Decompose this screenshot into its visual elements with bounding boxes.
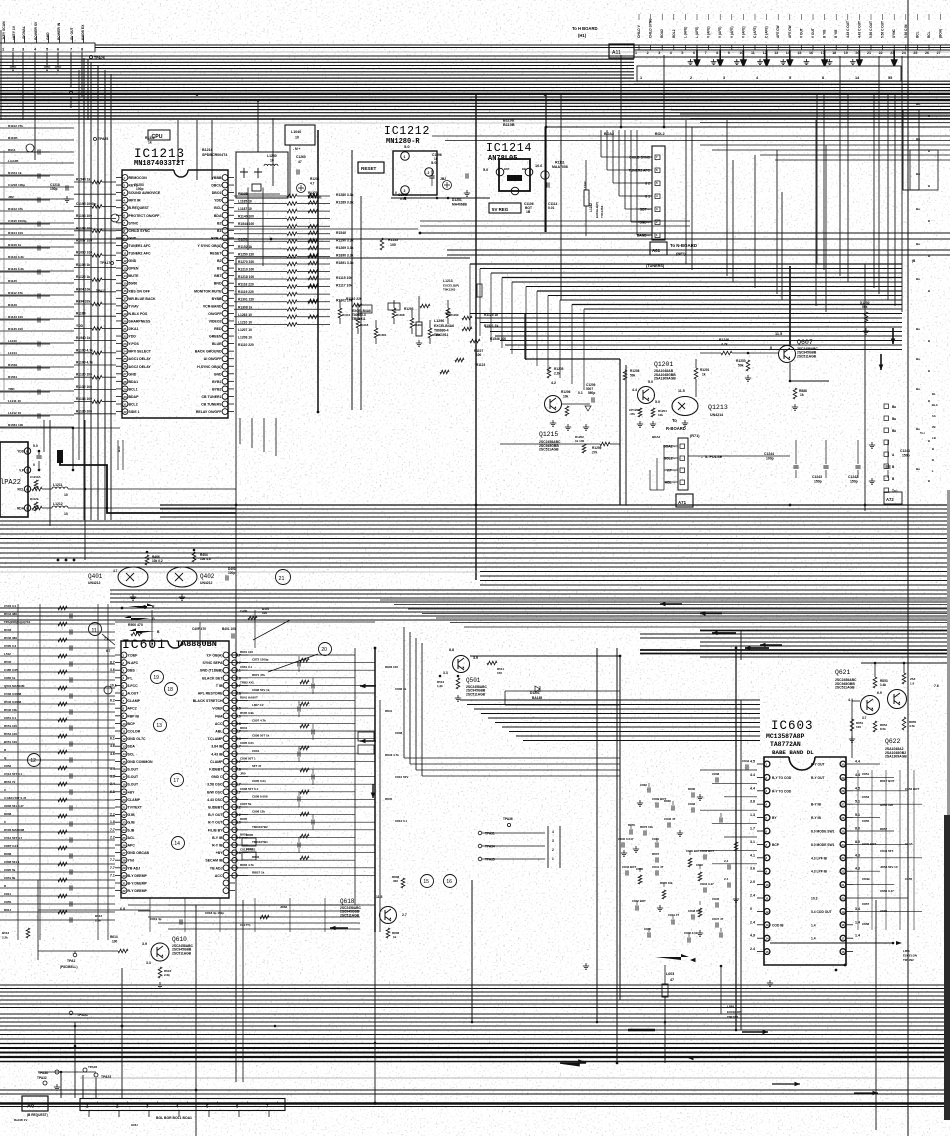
svg-text:B-Y IB: B-Y IB (212, 836, 223, 840)
svg-text:R1100 4.7k: R1100 4.7k (76, 348, 93, 352)
svg-text:TUNER2 AFC: TUNER2 AFC (129, 252, 152, 256)
svg-text:14: 14 (122, 752, 126, 756)
svg-text:R1106 1k: R1106 1k (8, 243, 22, 247)
svg-text:B.REQUEST: B.REQUEST (129, 206, 150, 210)
svg-text:R1133 100: R1133 100 (8, 315, 23, 319)
svg-text:3.6: 3.6 (110, 668, 115, 672)
svg-text:C838: C838 (712, 772, 720, 776)
svg-text:XBS ON OFF: XBS ON OFF (129, 289, 151, 293)
svg-text:R1544 100: R1544 100 (238, 222, 254, 226)
svg-text:1: 1 (635, 51, 637, 55)
svg-text:L1185 10: L1185 10 (238, 200, 252, 204)
svg-text:B-Y DEEMP: B-Y DEEMP (128, 882, 148, 886)
svg-text:D503 MA503M: D503 MA503M (4, 828, 25, 832)
svg-text:R1117 10k: R1117 10k (336, 284, 352, 288)
svg-text:lPA22: lPA22 (0, 479, 21, 487)
svg-text:26: 26 (925, 51, 929, 55)
svg-text:ACC: ACC (215, 722, 223, 726)
svg-text:V OUT: V OUT (811, 28, 815, 38)
svg-text:100: 100 (262, 611, 267, 615)
svg-text:D808: D808 (4, 812, 12, 816)
svg-text:C851: C851 (862, 772, 870, 776)
svg-text:B110B: B110B (8, 136, 18, 140)
svg-text:YB ADJ: YB ADJ (210, 866, 223, 870)
svg-text:8.5k: 8.5k (880, 727, 886, 731)
svg-text:C836 BOT: C836 BOT (686, 849, 700, 853)
svg-text:R1308: R1308 (396, 313, 405, 317)
svg-text:C847 4T: C847 4T (712, 917, 724, 921)
svg-text:BOA2: BOA2 (604, 132, 614, 136)
svg-text:6.2: 6.2 (110, 699, 115, 703)
svg-text:3.4 COD OUT: 3.4 COD OUT (811, 910, 832, 914)
svg-text:C1244: C1244 (764, 452, 774, 456)
svg-text:2.4: 2.4 (724, 877, 729, 881)
svg-text:A71: A71 (678, 500, 687, 505)
svg-text:C818 4p 100p: C818 4p 100p (205, 911, 224, 915)
svg-text:R81T BOT: R81T BOT (880, 779, 895, 783)
svg-text:ACL: ACL (128, 836, 136, 840)
svg-text:C505 0.3: C505 0.3 (4, 644, 17, 648)
svg-text:29: 29 (122, 866, 126, 870)
svg-text:GND: GND (129, 236, 137, 240)
svg-text:B: B (928, 254, 930, 258)
svg-text:C40F 470: C40F 470 (192, 627, 206, 631)
svg-text:L1207 10: L1207 10 (238, 328, 252, 332)
svg-text:R1104 100: R1104 100 (8, 231, 23, 235)
svg-text:R801 100: R801 100 (240, 650, 253, 654)
svg-text:SIDE 1: SIDE 1 (129, 410, 140, 414)
svg-text:R1125: R1125 (8, 279, 17, 283)
svg-text:R1155: R1155 (388, 238, 398, 242)
svg-text:R1129 3.3k: R1129 3.3k (8, 255, 24, 259)
svg-text:11: 11 (765, 896, 768, 900)
svg-text:Yhd: Yhd (128, 859, 135, 863)
svg-text:5.56 C IN: 5.56 C IN (904, 24, 908, 38)
svg-text:C850 0.47: C850 0.47 (880, 889, 894, 893)
svg-text:B-Y DEEMP: B-Y DEEMP (128, 874, 148, 878)
svg-text:UN4214: UN4214 (710, 413, 723, 417)
svg-text:L (AFE): L (AFE) (695, 27, 699, 38)
svg-text:10: 10 (765, 883, 769, 887)
svg-text:R-Y IB: R-Y IB (212, 844, 223, 848)
svg-text:C40F: C40F (240, 609, 248, 613)
svg-text:150p: 150p (902, 454, 910, 458)
svg-text:3: 3 (658, 51, 660, 55)
svg-text:1.9: 1.9 (910, 682, 915, 686)
svg-text:F.IDBBT: F.IDBBT (209, 768, 223, 772)
svg-text:R1308 1k: R1308 1k (238, 305, 252, 309)
svg-text:FBP IB: FBP IB (128, 714, 140, 718)
svg-text:2.4: 2.4 (724, 859, 729, 863)
svg-text:R1115 10k: R1115 10k (336, 276, 352, 280)
svg-text:DBO1: DBO1 (212, 191, 222, 195)
svg-text:R554 100: R554 100 (4, 732, 17, 736)
svg-text:B512: B512 (95, 914, 103, 918)
svg-text:BCL: BCL (214, 206, 222, 210)
svg-text:D841: D841 (240, 726, 248, 730)
svg-text:6: 6 (693, 51, 695, 55)
svg-text:17: 17 (173, 778, 179, 784)
svg-text:8.0 MODE SW1: 8.0 MODE SW1 (811, 843, 835, 847)
svg-text:R1140 100: R1140 100 (238, 215, 254, 219)
svg-text:A72: A72 (886, 497, 894, 502)
svg-text:0: 0 (33, 463, 35, 467)
svg-text:R1521 1k: R1521 1k (484, 324, 498, 328)
svg-text:V (AFE): V (AFE) (730, 26, 734, 38)
svg-text:R843 4.7k: R843 4.7k (385, 753, 399, 757)
svg-text:1.8: 1.8 (110, 820, 115, 824)
svg-text:GND: GND (129, 372, 137, 376)
svg-text:R1546 100: R1546 100 (490, 337, 506, 341)
svg-text:6 2: 6 2 (645, 182, 650, 186)
svg-text:BA185: BA185 (532, 696, 542, 700)
svg-text:19: 19 (841, 910, 845, 914)
svg-text:C808 50T 0.1: C808 50T 0.1 (240, 787, 259, 791)
svg-text:L603: L603 (666, 972, 674, 976)
svg-text:CLAMP: CLAMP (210, 760, 223, 764)
svg-text:Bu: Bu (916, 102, 920, 106)
svg-text:GND: GND (129, 259, 137, 263)
svg-text:PROTECT ON/OFF: PROTECT ON/OFF (129, 214, 161, 218)
svg-text:R-Y DEEMP: R-Y DEEMP (128, 889, 148, 893)
svg-text:14: 14 (765, 937, 769, 941)
svg-text:Bu: Bu (892, 429, 896, 433)
svg-text:20: 20 (122, 798, 126, 802)
svg-text:23: 23 (123, 342, 127, 346)
svg-text:Bu: Bu (916, 467, 920, 471)
svg-text:3.3: 3.3 (146, 961, 151, 965)
svg-text:L1187 10: L1187 10 (238, 207, 252, 211)
svg-text:IC1213: IC1213 (134, 147, 185, 161)
svg-text:OPEN: OPEN (129, 267, 139, 271)
svg-text:R1102 47k: R1102 47k (8, 124, 23, 128)
svg-text:R551 100: R551 100 (4, 724, 17, 728)
svg-text:R1250: R1250 (736, 359, 746, 363)
svg-text:2S4: 2S4 (910, 677, 916, 681)
svg-text:C512 50T 0.1: C512 50T 0.1 (4, 772, 23, 776)
svg-text:10: 10 (295, 136, 299, 140)
svg-text:R814: R814 (4, 908, 12, 912)
svg-text:GND (T1DBB): GND (T1DBB) (200, 669, 223, 673)
svg-text:R-Y OUT: R-Y OUT (811, 776, 825, 780)
svg-text:17: 17 (122, 775, 126, 779)
svg-text:D808: D808 (4, 852, 12, 856)
svg-text:4.3: 4.3 (855, 867, 860, 871)
svg-text:BLUE: BLUE (212, 342, 222, 346)
svg-text:C840 BOT: C840 BOT (862, 842, 877, 846)
svg-text:R604 10k: R604 10k (76, 287, 90, 291)
svg-text:S.OUT: S.OUT (128, 775, 140, 779)
svg-text:S.OUT: S.OUT (128, 768, 140, 772)
svg-text:6.9: 6.9 (877, 691, 882, 695)
svg-text:4.43 IB: 4.43 IB (211, 752, 223, 756)
svg-text:R1118: R1118 (360, 323, 369, 327)
svg-text:8 1: 8 1 (645, 195, 650, 199)
svg-text:R1270 220: R1270 220 (238, 260, 254, 264)
svg-text:0: 0 (750, 907, 752, 911)
svg-text:3.3: 3.3 (110, 775, 115, 779)
svg-text:TRB2 XXL: TRB2 XXL (240, 680, 255, 684)
svg-text:SBT→: SBT→ (640, 208, 650, 212)
svg-text:8: 8 (822, 76, 824, 80)
svg-text:BOT: BOT (504, 167, 510, 171)
svg-text:27: 27 (122, 851, 126, 855)
svg-text:SHARPNESS: SHARPNESS (129, 319, 151, 323)
svg-text:To N-BOARD: To N-BOARD (670, 243, 697, 248)
svg-text:BLACK STRETCH: BLACK STRETCH (193, 699, 223, 703)
svg-text:22: 22 (122, 813, 126, 817)
svg-text:C843 BOT: C843 BOT (700, 849, 715, 853)
svg-text:R1111: R1111 (555, 161, 565, 165)
svg-text:B: B (932, 458, 934, 462)
svg-text:3.1: 3.1 (750, 840, 755, 844)
svg-text:4.4: 4.4 (632, 388, 637, 392)
svg-text:MPX IR: MPX IR (129, 199, 142, 203)
svg-text:R1581 100: R1581 100 (8, 423, 23, 427)
svg-text:L1244: L1244 (8, 351, 17, 355)
svg-text:EXCELON: EXCELON (903, 954, 917, 958)
svg-text:4.4: 4.4 (750, 786, 755, 790)
svg-text:B110B: B110B (503, 123, 515, 127)
svg-text:3.58 OSC: 3.58 OSC (207, 783, 223, 787)
svg-text:2SC511AGB: 2SC511AGB (797, 354, 817, 358)
svg-text:GND C: GND C (211, 775, 223, 779)
svg-text:3.FCC: 3.FCC (128, 684, 139, 688)
svg-text:hA: hA (932, 414, 936, 418)
svg-text:GND COMMON: GND COMMON (128, 760, 154, 764)
svg-text:R1289 3.3k: R1289 3.3k (336, 201, 354, 205)
svg-text:C1242: C1242 (848, 475, 858, 479)
svg-text:4: 4 (552, 830, 554, 834)
svg-text:Q1215: Q1215 (539, 431, 558, 438)
svg-text:BYB1: BYB1 (212, 380, 221, 384)
svg-text:8.8: 8.8 (449, 648, 454, 652)
svg-text:G: G (152, 617, 155, 621)
svg-text:13: 13 (765, 923, 769, 927)
svg-text:R554 7k: R554 7k (4, 780, 16, 784)
svg-text:T80880-4: T80880-4 (434, 329, 449, 333)
svg-text:TPA33: TPA33 (101, 1075, 111, 1079)
svg-text:BOL2→: BOL2→ (664, 457, 676, 461)
svg-text:R1208: R1208 (630, 369, 640, 373)
svg-text:ABL →: ABL → (665, 481, 676, 485)
svg-text:3.6: 3.6 (750, 867, 755, 871)
svg-text:C1213A: C1213A (30, 475, 42, 479)
svg-text:C861 0.1: C861 0.1 (240, 665, 253, 669)
svg-text:EXCELB4A6: EXCELB4A6 (434, 324, 454, 328)
svg-text:F'L: F'L (128, 676, 134, 680)
svg-text:7.7: 7.7 (110, 858, 115, 862)
svg-text:N.BLX POS: N.BLX POS (129, 312, 149, 316)
svg-text:R1102 47k: R1102 47k (8, 207, 23, 211)
svg-text:27: 27 (937, 51, 941, 55)
svg-text:R1312: R1312 (145, 136, 155, 140)
svg-text:GND: GND (214, 372, 222, 376)
svg-text:10: 10 (270, 159, 274, 163)
svg-text:1k 100: 1k 100 (575, 439, 585, 443)
svg-text:C1218 100p: C1218 100p (8, 183, 25, 187)
svg-text:2.4: 2.4 (750, 947, 755, 951)
svg-text:+KEY 1V: +KEY 1V (12, 25, 16, 40)
svg-text:20: 20 (321, 647, 327, 653)
svg-text:L1208 10: L1208 10 (238, 335, 252, 339)
svg-text:4.43 C OUT: 4.43 C OUT (857, 21, 861, 38)
svg-text:D805: D805 (240, 817, 248, 821)
svg-text:B-Y OUT: B-Y OUT (208, 813, 223, 817)
svg-text:R1940 1k: R1940 1k (76, 336, 90, 340)
svg-text:L1040: L1040 (291, 130, 301, 134)
svg-text:BND: BND (214, 282, 222, 286)
svg-text:TA8772AN: TA8772AN (770, 741, 801, 748)
svg-text:2.4: 2.4 (750, 894, 755, 898)
svg-text:R1246: R1246 (719, 338, 729, 342)
svg-text:CB TUNER1: CB TUNER1 (201, 395, 221, 399)
svg-text:50k: 50k (738, 364, 744, 368)
svg-text:7: 7 (705, 51, 707, 55)
svg-text:KNOB EX: KNOB EX (81, 24, 85, 40)
svg-text:10.3: 10.3 (811, 897, 818, 901)
svg-text:2: 2 (647, 51, 649, 55)
svg-text:2.2k: 2.2k (95, 919, 101, 923)
svg-text:R914: R914 (8, 148, 16, 152)
svg-text:27: 27 (123, 372, 127, 376)
svg-text:25: 25 (913, 51, 917, 55)
svg-text:BACK GROUND: BACK GROUND (195, 350, 222, 354)
svg-text:DBCU: DBCU (211, 184, 222, 188)
svg-text:L1211: L1211 (53, 483, 63, 487)
svg-text:1.2k: 1.2k (437, 684, 443, 688)
svg-text:24: 24 (902, 51, 906, 55)
svg-text:B801: B801 (246, 847, 254, 851)
svg-text:2.2k: 2.2k (164, 973, 170, 977)
svg-text:-47k: -47k (629, 412, 635, 416)
svg-text:ABL: ABL (215, 730, 223, 734)
svg-text:B1: B1 (217, 267, 222, 271)
svg-text:R1112 47k: R1112 47k (8, 291, 23, 295)
svg-text:11.5: 11.5 (678, 389, 685, 393)
svg-text:D857: D857 (880, 827, 888, 831)
svg-text:RED: RED (214, 327, 222, 331)
svg-text:G.IB: G.IB (128, 813, 136, 817)
svg-text:5.0: 5.0 (404, 144, 410, 149)
svg-text:TPA32: TPA32 (37, 1076, 47, 1080)
svg-text:5.0: 5.0 (655, 400, 660, 404)
svg-text:C808: C808 (395, 731, 403, 735)
svg-text:L1212: L1212 (53, 502, 63, 506)
svg-text:A61: A61 (652, 248, 661, 253)
svg-text:R1301 220: R1301 220 (238, 298, 254, 302)
svg-text:D1251: D1251 (452, 198, 462, 202)
svg-text:R1561: R1561 (8, 375, 17, 379)
svg-text:3.4: 3.4 (110, 767, 115, 771)
svg-text:C865 1k: C865 1k (4, 676, 16, 680)
svg-text:23: 23 (841, 856, 845, 860)
svg-text:5.0: 5.0 (33, 444, 38, 448)
svg-text:26: 26 (841, 816, 845, 820)
svg-text:Bu: Bu (916, 137, 920, 141)
svg-text:B: B (928, 399, 930, 403)
svg-text:R1218 100: R1218 100 (238, 275, 254, 279)
svg-text:R1122 1k: R1122 1k (76, 275, 90, 279)
svg-text:C857: C857 (862, 902, 870, 906)
svg-text:R1109 4.7k: R1109 4.7k (76, 361, 93, 365)
svg-text:POWER IN: POWER IN (57, 22, 61, 40)
svg-text:R-Y TO COD: R-Y TO COD (772, 789, 792, 793)
svg-text:VIDEO2: VIDEO2 (209, 319, 222, 323)
svg-text:R-Y OUT: R-Y OUT (208, 821, 223, 825)
svg-text:R1269 3.3k: R1269 3.3k (336, 246, 354, 250)
svg-text:29: 29 (123, 387, 127, 391)
svg-text:REMOCON: REMOCON (129, 176, 148, 180)
svg-text:0: 0 (770, 346, 772, 350)
svg-text:100p: 100p (228, 571, 235, 575)
svg-text:3.9: 3.9 (142, 942, 147, 946)
svg-text:IC601: IC601 (122, 637, 166, 652)
svg-text:C1241: C1241 (900, 449, 910, 453)
svg-text:BCL2: BCL2 (129, 403, 138, 407)
svg-text:RESET: RESET (361, 166, 377, 171)
svg-text:31: 31 (123, 402, 127, 406)
svg-text:R1152 1k: R1152 1k (238, 245, 252, 249)
svg-text:14: 14 (123, 274, 127, 278)
svg-text:B1: B1 (217, 229, 222, 233)
svg-text:CHILD SYNC: CHILD SYNC (629, 156, 650, 160)
svg-text:5V REG: 5V REG (492, 207, 509, 212)
svg-text:C851 8k: C851 8k (4, 876, 16, 880)
svg-text:1.4: 1.4 (855, 920, 860, 924)
svg-text:B1108: B1108 (503, 119, 514, 123)
svg-text:D503: D503 (4, 628, 12, 632)
svg-text:LAA3B: LAA3B (8, 159, 19, 163)
svg-text:B: B (928, 369, 930, 373)
svg-text:APL RESTORE: APL RESTORE (198, 692, 223, 696)
svg-text:2SC511AGB: 2SC511AGB (466, 692, 486, 696)
svg-text:L1263 10: L1263 10 (238, 313, 252, 317)
svg-text:B1216: B1216 (202, 148, 213, 152)
svg-text:MA4068B: MA4068B (452, 203, 467, 207)
svg-text:4.4: 4.4 (750, 773, 755, 777)
svg-text:150: 150 (497, 671, 502, 675)
svg-text:4.43 C OUT: 4.43 C OUT (846, 21, 850, 38)
svg-text:1k: 1k (393, 935, 397, 939)
svg-text:IC1214: IC1214 (486, 142, 532, 155)
svg-text:+BY: +BY (216, 851, 224, 855)
svg-text:CHILD V: CHILD V (637, 24, 641, 38)
svg-text:100p: 100p (766, 457, 774, 461)
svg-text:D546 0.0638: D546 0.0638 (4, 700, 22, 704)
svg-text:1.4k: 1.4k (880, 683, 886, 687)
svg-text:20: 20 (841, 896, 845, 900)
svg-text:(B REQUEST): (B REQUEST) (27, 1113, 48, 1117)
svg-text:Bu: Bu (916, 327, 920, 331)
svg-text:To H BOARD: To H BOARD (572, 26, 598, 31)
svg-text:C836: C836 (688, 802, 696, 806)
svg-text:CLAMP: CLAMP (128, 798, 141, 802)
svg-text:23: 23 (122, 821, 126, 825)
svg-text:21: 21 (279, 576, 285, 582)
svg-text:15: 15 (123, 282, 127, 286)
svg-text:4.6: 4.6 (110, 752, 115, 756)
svg-text:Q401: Q401 (88, 573, 103, 580)
svg-text:21: 21 (122, 805, 126, 809)
svg-text:2SA1309AGB: 2SA1309AGB (654, 377, 676, 381)
svg-text:19: 19 (844, 51, 848, 55)
svg-text:B: B (932, 447, 934, 451)
svg-text:Q618: Q618 (340, 898, 355, 905)
svg-text:B-Y TO COD: B-Y TO COD (772, 776, 792, 780)
svg-text:R-Y IB: R-Y IB (811, 816, 821, 820)
svg-text:BCL1: BCL1 (129, 387, 138, 391)
